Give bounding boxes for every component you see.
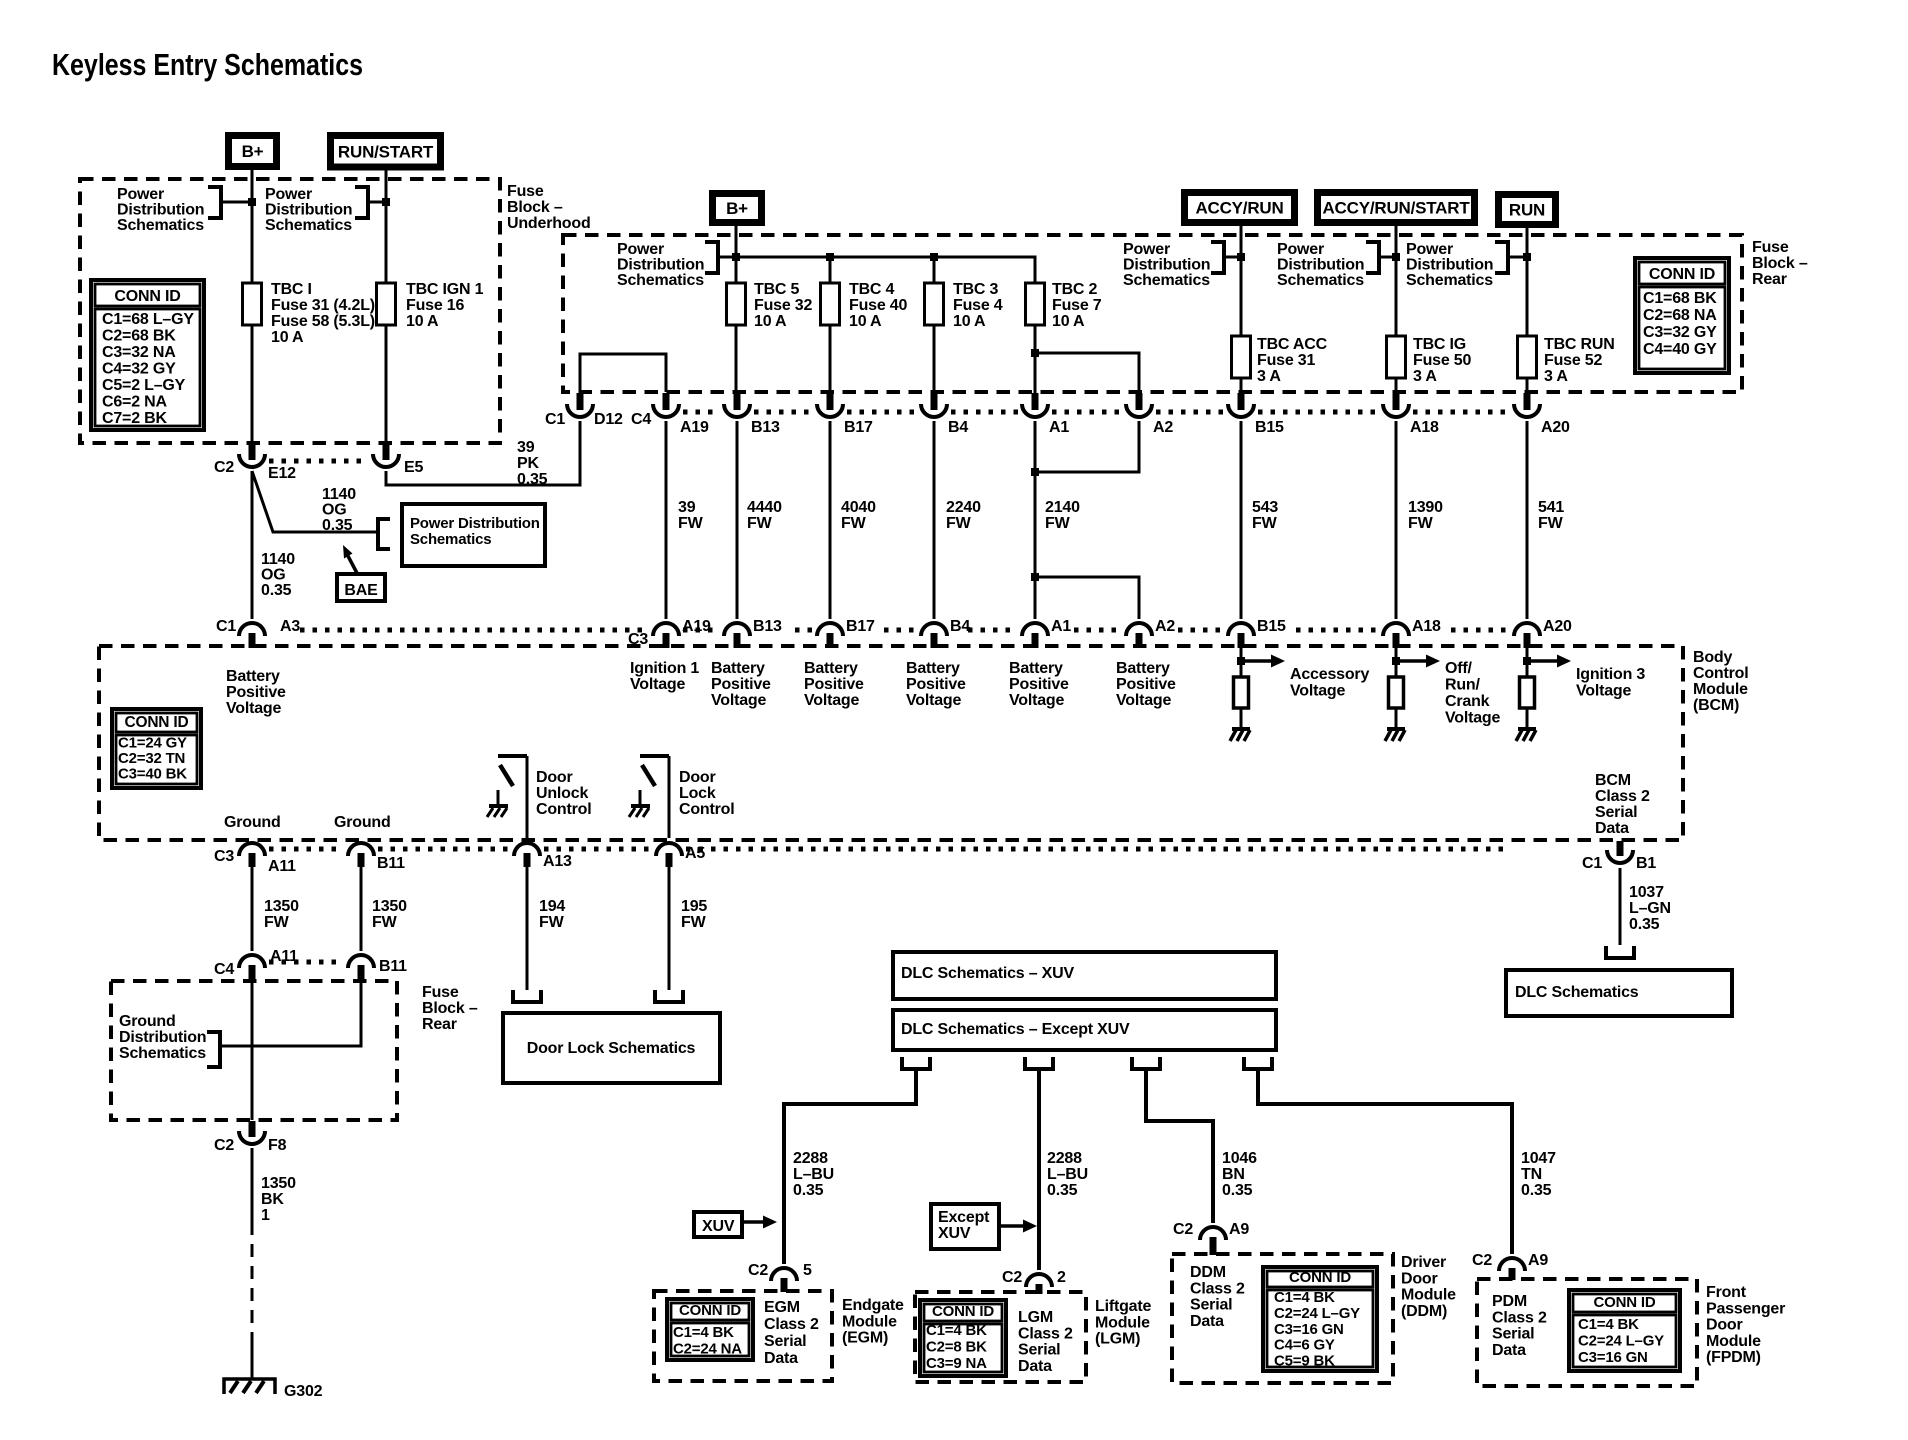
fuse TBC 3 xyxy=(925,283,944,325)
svg-text:C3: C3 xyxy=(214,848,234,865)
svg-text:Control: Control xyxy=(679,801,734,818)
svg-text:Door: Door xyxy=(1401,1270,1438,1287)
wire switch to connector (Door Unlock Control) xyxy=(526,756,529,838)
CONN ID table LGM xyxy=(920,1300,1006,1376)
wire 1047 TN 0.35 to PDM xyxy=(1258,1069,1512,1254)
wire TBC 5 to B13 connector xyxy=(735,325,738,393)
svg-text:A2: A2 xyxy=(1153,419,1173,436)
svg-text:Schematics: Schematics xyxy=(265,217,352,234)
dotted in-line connector row E12-E5 xyxy=(269,459,369,464)
svg-text:C3: C3 xyxy=(628,631,648,648)
svg-text:B4: B4 xyxy=(950,618,970,635)
svg-text:B17: B17 xyxy=(844,419,873,436)
connector C2/A9 (PDM) xyxy=(1499,1258,1525,1271)
CONN ID table EGM xyxy=(667,1299,753,1360)
svg-text:B13: B13 xyxy=(753,618,782,635)
svg-text:0.35: 0.35 xyxy=(1222,1182,1253,1199)
svg-text:1350: 1350 xyxy=(261,1175,296,1192)
power box RUN/START xyxy=(327,132,444,171)
svg-text:B+: B+ xyxy=(242,142,264,161)
svg-text:C3=9 NA: C3=9 NA xyxy=(926,1355,987,1372)
svg-text:0.35: 0.35 xyxy=(1521,1182,1552,1199)
svg-text:A18: A18 xyxy=(1410,419,1439,436)
svg-text:E5: E5 xyxy=(404,459,423,476)
svg-text:Block –: Block – xyxy=(507,199,563,216)
junction TBC2 output split xyxy=(1031,349,1039,357)
svg-text:4040: 4040 xyxy=(841,499,876,516)
svg-text:Except: Except xyxy=(938,1209,990,1226)
svg-text:C2: C2 xyxy=(214,1137,234,1154)
svg-text:Positive: Positive xyxy=(226,684,286,701)
wire 2240 FW (B4) xyxy=(933,421,936,619)
svg-text:Fuse 16: Fuse 16 xyxy=(406,297,464,314)
svg-text:PK: PK xyxy=(517,455,539,472)
svg-text:Voltage: Voltage xyxy=(1290,683,1346,700)
svg-text:2140: 2140 xyxy=(1045,499,1080,516)
svg-text:Run/: Run/ xyxy=(1445,677,1481,694)
svg-text:10 A: 10 A xyxy=(271,329,304,346)
svg-text:5: 5 xyxy=(803,1262,812,1279)
wire A18 internal with junction xyxy=(1395,647,1398,677)
junction on RUN/START wire xyxy=(382,198,390,206)
wire 194 FW (A13 to door lock schematics) xyxy=(526,866,529,990)
connector A19 (fuse block rear output) xyxy=(663,393,670,410)
connector A18 (into BCM) xyxy=(1383,623,1409,636)
svg-text:C5=9 BK: C5=9 BK xyxy=(1274,1353,1335,1370)
svg-text:L–BU: L–BU xyxy=(793,1166,834,1183)
svg-text:Fuse 50: Fuse 50 xyxy=(1413,352,1471,369)
svg-text:Fuse 31: Fuse 31 xyxy=(1257,352,1315,369)
svg-text:543: 543 xyxy=(1252,499,1278,516)
svg-text:Liftgate: Liftgate xyxy=(1095,1298,1151,1315)
switch Door Lock Control xyxy=(640,754,669,758)
svg-text:Power: Power xyxy=(1406,241,1453,258)
svg-text:0.35: 0.35 xyxy=(517,471,548,488)
svg-text:Ignition 1: Ignition 1 xyxy=(630,660,699,677)
svg-text:FW: FW xyxy=(372,914,398,931)
connector B11 (BCM bottom) xyxy=(348,843,374,856)
connector A1 (into BCM) xyxy=(1022,623,1048,636)
svg-text:Battery: Battery xyxy=(711,660,765,677)
svg-text:C1=4 BK: C1=4 BK xyxy=(1578,1316,1639,1333)
connector C2/2 (LGM) xyxy=(1026,1274,1052,1287)
svg-text:Crank: Crank xyxy=(1445,693,1490,710)
svg-text:BAE: BAE xyxy=(344,582,378,599)
svg-text:Schematics: Schematics xyxy=(617,272,704,289)
box DLC Schematics xyxy=(1506,970,1732,1016)
power box RUN xyxy=(1495,191,1559,228)
svg-text:A1: A1 xyxy=(1051,618,1071,635)
svg-text:Positive: Positive xyxy=(711,676,771,693)
svg-text:Body: Body xyxy=(1693,649,1733,666)
svg-text:RUN: RUN xyxy=(1509,201,1545,220)
svg-text:Positive: Positive xyxy=(804,676,864,693)
svg-text:C2=68 BK: C2=68 BK xyxy=(102,328,176,345)
svg-text:Underhood: Underhood xyxy=(507,215,591,232)
svg-text:Distribution: Distribution xyxy=(119,1029,206,1046)
svg-text:A13: A13 xyxy=(543,853,572,870)
svg-text:Data: Data xyxy=(1595,820,1629,837)
svg-text:C6=2 NA: C6=2 NA xyxy=(102,394,167,411)
svg-text:C2: C2 xyxy=(1472,1252,1492,1269)
svg-text:Distribution: Distribution xyxy=(265,202,352,219)
connector C1/B1 (BCM serial data) xyxy=(1617,841,1624,856)
power box ACCY/RUN xyxy=(1181,189,1298,226)
svg-text:A9: A9 xyxy=(1229,1221,1249,1238)
callout box Except XUV with arrow xyxy=(931,1204,999,1249)
connector A20 (into BCM) xyxy=(1514,623,1540,636)
wire branch to Power Distribution Schematics box (1140 OG) xyxy=(252,471,378,532)
dotted in-line connector row (BCM top) xyxy=(300,628,645,633)
dotted in-line connector row (fuse block rear) xyxy=(683,410,720,415)
svg-text:EGM: EGM xyxy=(764,1299,800,1316)
svg-text:Positive: Positive xyxy=(1009,676,1069,693)
svg-text:PDM: PDM xyxy=(1492,1293,1527,1310)
svg-text:Rear: Rear xyxy=(1752,271,1787,288)
svg-text:Module: Module xyxy=(1706,1333,1761,1350)
svg-text:Data: Data xyxy=(1190,1313,1224,1330)
svg-text:Distribution: Distribution xyxy=(617,257,704,274)
svg-text:Power: Power xyxy=(1123,241,1170,258)
wire TBC 4 to B17 connector xyxy=(829,325,832,393)
svg-text:Schematics: Schematics xyxy=(119,1045,206,1062)
svg-text:C3=40 BK: C3=40 BK xyxy=(118,766,187,783)
svg-text:Positive: Positive xyxy=(906,676,966,693)
svg-text:1047: 1047 xyxy=(1521,1150,1556,1167)
wire 4440 FW (B13) xyxy=(736,421,739,619)
svg-text:C3=32 GY: C3=32 GY xyxy=(1643,324,1717,341)
svg-text:A20: A20 xyxy=(1541,419,1570,436)
svg-text:Unlock: Unlock xyxy=(536,785,588,802)
box DLC Schematics - Except XUV xyxy=(893,1010,1276,1050)
svg-text:C1: C1 xyxy=(1582,855,1602,872)
svg-text:CONN ID: CONN ID xyxy=(1289,1269,1351,1286)
svg-text:Module: Module xyxy=(842,1313,897,1330)
junction bus/TBC4 xyxy=(826,253,834,261)
svg-text:A20: A20 xyxy=(1543,618,1572,635)
svg-text:FW: FW xyxy=(1045,515,1071,532)
wire B15 internal with junction xyxy=(1240,647,1243,677)
svg-text:C3=32 NA: C3=32 NA xyxy=(102,344,176,361)
svg-text:541: 541 xyxy=(1538,499,1564,516)
svg-text:Power: Power xyxy=(617,241,664,258)
svg-text:Class 2: Class 2 xyxy=(764,1316,819,1333)
ground symbol (B15) xyxy=(1232,727,1250,731)
connector B15 (fuse block rear output) xyxy=(1238,393,1245,410)
wire RUN/START to TBC IGN 1 fuse xyxy=(385,171,388,284)
svg-text:ACCY/RUN/START: ACCY/RUN/START xyxy=(1322,199,1470,218)
svg-text:Endgate: Endgate xyxy=(842,1297,904,1314)
svg-text:C2=32 TN: C2=32 TN xyxy=(118,750,185,767)
svg-text:Class 2: Class 2 xyxy=(1018,1325,1073,1342)
svg-text:OG: OG xyxy=(261,567,286,584)
wire load to ground (A18) xyxy=(1395,708,1398,729)
svg-text:Driver: Driver xyxy=(1401,1254,1446,1271)
fuse TBC I xyxy=(243,283,262,325)
svg-text:2288: 2288 xyxy=(793,1150,828,1167)
svg-text:Module: Module xyxy=(1693,681,1748,698)
svg-text:A3: A3 xyxy=(280,618,300,635)
svg-text:B11: B11 xyxy=(379,958,407,975)
connector A5 (BCM bottom) xyxy=(656,843,682,856)
svg-text:10 A: 10 A xyxy=(406,313,439,330)
fuse block rear dashed box xyxy=(563,235,1742,392)
fuse TBC 4 xyxy=(821,283,840,325)
svg-text:Class 2: Class 2 xyxy=(1190,1280,1245,1297)
load resistor below A20 xyxy=(1520,677,1535,708)
svg-text:C2=68 NA: C2=68 NA xyxy=(1643,307,1717,324)
svg-text:(FPDM): (FPDM) xyxy=(1706,1349,1761,1366)
svg-text:LGM: LGM xyxy=(1018,1309,1053,1326)
svg-text:Off/: Off/ xyxy=(1445,660,1473,677)
svg-text:C2: C2 xyxy=(1173,1221,1193,1238)
junction on B+ wire xyxy=(248,198,256,206)
svg-text:B11: B11 xyxy=(377,855,405,872)
svg-text:1: 1 xyxy=(261,1207,270,1224)
svg-text:Fuse 7: Fuse 7 xyxy=(1052,297,1102,314)
wire 1037 L-GN 0.35 xyxy=(1619,868,1622,945)
svg-text:CONN ID: CONN ID xyxy=(1594,1294,1656,1311)
wire 39 FW (A19 to C3/A19) xyxy=(665,421,668,619)
svg-text:Door: Door xyxy=(536,769,573,786)
wire C2 to C1/A3 (1140 OG) xyxy=(251,471,254,619)
svg-text:Fuse: Fuse xyxy=(422,984,459,1001)
svg-text:Distribution: Distribution xyxy=(1277,257,1364,274)
svg-text:C1=4 BK: C1=4 BK xyxy=(673,1324,734,1341)
svg-text:2: 2 xyxy=(1057,1269,1066,1286)
junction ACCY/RUN/START wire xyxy=(1392,253,1400,261)
pin cups below DLC Except XUV box xyxy=(902,1057,930,1069)
svg-text:194: 194 xyxy=(539,898,565,915)
svg-text:Schematics: Schematics xyxy=(1277,272,1364,289)
svg-text:Schematics: Schematics xyxy=(410,531,491,548)
svg-text:0.35: 0.35 xyxy=(793,1182,824,1199)
svg-text:FW: FW xyxy=(678,515,704,532)
wire ACCY/RUN to TBC ACC fuse xyxy=(1240,226,1243,336)
svg-text:2288: 2288 xyxy=(1047,1150,1082,1167)
wire TBC RUN to A20 connector xyxy=(1526,378,1529,393)
svg-text:39: 39 xyxy=(517,439,535,456)
svg-text:Block –: Block – xyxy=(1752,255,1808,272)
svg-text:C1=24 GY: C1=24 GY xyxy=(118,735,187,752)
svg-text:0.35: 0.35 xyxy=(322,517,353,534)
ground symbol (A20) xyxy=(1518,727,1536,731)
fuse TBC IGN 1 xyxy=(377,283,396,325)
svg-text:Fuse 31 (4.2L): Fuse 31 (4.2L) xyxy=(271,297,375,314)
wire TBC 2 to A1/A2 split xyxy=(1034,325,1037,353)
svg-text:Voltage: Voltage xyxy=(804,692,860,709)
junction bus/TBC3 xyxy=(930,253,938,261)
svg-text:C1=4 BK: C1=4 BK xyxy=(1274,1289,1335,1306)
dotted in-line connector row C4-B11 xyxy=(269,960,344,965)
connector C1/A3 (battery positive into BCM) xyxy=(239,623,265,636)
connector A2 (into BCM) xyxy=(1126,623,1152,636)
svg-text:TBC 5: TBC 5 xyxy=(754,281,800,298)
connector A20 (fuse block rear output) xyxy=(1524,393,1531,410)
svg-text:C4: C4 xyxy=(214,961,234,978)
svg-text:(EGM): (EGM) xyxy=(842,1330,888,1347)
Front Passenger Door Module dashed box xyxy=(1477,1279,1697,1386)
connector B13 (fuse block rear output) xyxy=(734,393,741,410)
svg-text:BCM: BCM xyxy=(1595,772,1631,789)
svg-text:B15: B15 xyxy=(1257,618,1286,635)
svg-text:Fuse: Fuse xyxy=(1752,239,1789,256)
fuse TBC IG xyxy=(1387,336,1406,378)
wire split to A1 connector xyxy=(1034,353,1037,393)
svg-text:FW: FW xyxy=(1538,515,1564,532)
svg-text:Module: Module xyxy=(1401,1287,1456,1304)
svg-text:Door: Door xyxy=(1706,1317,1743,1334)
junction ACCY/RUN wire xyxy=(1237,253,1245,261)
connector B4 (into BCM) xyxy=(921,623,947,636)
svg-text:2240: 2240 xyxy=(946,499,981,516)
svg-text:1140: 1140 xyxy=(322,486,356,503)
connector B17 (fuse block rear output) xyxy=(827,393,834,410)
svg-text:FW: FW xyxy=(681,914,707,931)
svg-text:A1: A1 xyxy=(1049,419,1069,436)
svg-text:Door Lock Schematics: Door Lock Schematics xyxy=(527,1040,696,1057)
svg-text:C2=24 L–GY: C2=24 L–GY xyxy=(1578,1333,1664,1350)
wire TBC I to C2 connector xyxy=(251,325,254,444)
svg-text:Ground: Ground xyxy=(119,1013,176,1030)
svg-text:B17: B17 xyxy=(846,618,875,635)
svg-text:TBC ACC: TBC ACC xyxy=(1257,336,1328,353)
svg-text:Serial: Serial xyxy=(1492,1326,1534,1343)
wire 1350 FW (C3/A11 to C4/A11) xyxy=(251,866,254,951)
pin cup A13 to door lock schematics box xyxy=(513,990,541,1002)
connector E5 (underhood output) xyxy=(383,444,390,460)
svg-text:1350: 1350 xyxy=(372,898,407,915)
svg-text:Distribution: Distribution xyxy=(117,202,204,219)
svg-text:FW: FW xyxy=(539,914,565,931)
CONN ID table PDM xyxy=(1569,1290,1680,1371)
svg-text:C4=6 GY: C4=6 GY xyxy=(1274,1337,1335,1354)
wire C4/A11 through fuse block to C2/F8 xyxy=(251,981,254,1120)
svg-text:Power: Power xyxy=(265,186,312,203)
svg-text:3 A: 3 A xyxy=(1413,368,1437,385)
svg-text:C1=4 BK: C1=4 BK xyxy=(926,1322,987,1339)
svg-text:Accessory: Accessory xyxy=(1290,666,1369,683)
svg-text:FW: FW xyxy=(264,914,290,931)
svg-text:ACCY/RUN: ACCY/RUN xyxy=(1195,199,1283,218)
svg-text:FW: FW xyxy=(841,515,867,532)
wire TBC IGN 1 to E5 connector xyxy=(385,325,388,444)
reference box Power Distribution Schematics xyxy=(378,519,390,549)
wire TBC 3 to B4 connector xyxy=(933,325,936,393)
switch Door Unlock Control xyxy=(498,754,527,758)
box DLC Schematics - XUV xyxy=(893,952,1276,999)
svg-text:TBC RUN: TBC RUN xyxy=(1544,336,1615,353)
svg-text:Positive: Positive xyxy=(1116,676,1176,693)
wire RUN to TBC RUN fuse xyxy=(1526,228,1529,336)
svg-text:195: 195 xyxy=(681,898,707,915)
CONN ID table fuse block rear xyxy=(1635,258,1729,373)
svg-text:FW: FW xyxy=(1252,515,1278,532)
connector B11 (into fuse block rear) xyxy=(348,955,374,968)
power box ACCY/RUN/START xyxy=(1314,189,1478,226)
bus wire from bracket to TBC2 xyxy=(718,257,1035,283)
wire 2288 L-BU 0.35 to LGM xyxy=(1037,1069,1041,1270)
svg-text:TBC 4: TBC 4 xyxy=(849,281,895,298)
ground G302 symbol xyxy=(224,1379,275,1394)
svg-text:C2: C2 xyxy=(214,459,234,476)
wire bus to TBC 4 xyxy=(829,257,832,283)
svg-text:C4: C4 xyxy=(631,411,651,428)
svg-text:Distribution: Distribution xyxy=(1406,257,1493,274)
svg-text:G302: G302 xyxy=(284,1383,323,1400)
svg-text:Voltage: Voltage xyxy=(1576,683,1632,700)
svg-text:C1=68 BK: C1=68 BK xyxy=(1643,290,1717,307)
wire 1390 FW (A18) xyxy=(1395,421,1398,619)
svg-text:Serial: Serial xyxy=(1595,804,1637,821)
svg-text:Ignition 3: Ignition 3 xyxy=(1576,666,1645,683)
svg-text:C1: C1 xyxy=(216,618,236,635)
svg-text:Module: Module xyxy=(1095,1314,1150,1331)
svg-text:Control: Control xyxy=(1693,665,1748,682)
svg-text:A11: A11 xyxy=(268,858,296,875)
callout box XUV with arrow xyxy=(694,1212,742,1237)
svg-text:RUN/START: RUN/START xyxy=(338,142,434,161)
svg-text:C4=40 GY: C4=40 GY xyxy=(1643,341,1717,358)
wire 1350 BK 1 to G302 xyxy=(251,1148,254,1222)
svg-text:CONN ID: CONN ID xyxy=(1649,266,1715,283)
svg-text:A19: A19 xyxy=(680,419,709,436)
svg-text:Fuse 58 (5.3L): Fuse 58 (5.3L) xyxy=(271,313,375,330)
svg-text:Distribution: Distribution xyxy=(1123,257,1210,274)
connector B4 (fuse block rear output) xyxy=(931,393,938,410)
svg-text:Fuse 40: Fuse 40 xyxy=(849,297,907,314)
svg-text:D12: D12 xyxy=(594,411,623,428)
svg-text:(LGM): (LGM) xyxy=(1095,1331,1140,1348)
wire 39 PK 0.35 from E5 to C1 D12 xyxy=(386,421,580,485)
svg-text:OG: OG xyxy=(322,502,347,519)
wire internal link D12 to A19 inside fuse block rear xyxy=(580,354,666,392)
svg-text:Front: Front xyxy=(1706,1284,1747,1301)
connector B17 (into BCM) xyxy=(817,623,843,636)
wire load to ground (B15) xyxy=(1240,708,1243,729)
svg-text:Fuse: Fuse xyxy=(507,183,544,200)
wire ACCY/RUN/START to TBC IG fuse xyxy=(1395,226,1398,336)
svg-text:0.35: 0.35 xyxy=(1629,916,1660,933)
svg-text:TBC 3: TBC 3 xyxy=(953,281,999,298)
svg-text:B13: B13 xyxy=(751,419,780,436)
svg-text:Data: Data xyxy=(764,1350,798,1367)
svg-text:TBC 2: TBC 2 xyxy=(1052,281,1098,298)
svg-text:C4=32 GY: C4=32 GY xyxy=(102,361,176,378)
wire 4040 FW (B17) xyxy=(829,421,832,619)
svg-text:C2: C2 xyxy=(748,1262,768,1279)
wire 543 FW (B15) xyxy=(1240,421,1243,619)
wire TBC IG to A18 connector xyxy=(1395,378,1398,393)
fuse block rear (bottom) dashed box xyxy=(111,981,397,1120)
svg-text:1390: 1390 xyxy=(1408,499,1443,516)
junction RUN wire xyxy=(1523,253,1531,261)
svg-text:Fuse 52: Fuse 52 xyxy=(1544,352,1602,369)
svg-text:C1: C1 xyxy=(545,411,565,428)
svg-text:Lock: Lock xyxy=(679,785,716,802)
load resistor below B15 xyxy=(1234,677,1249,708)
fuse TBC 5 xyxy=(727,283,746,325)
Endgate Module dashed box xyxy=(654,1291,832,1381)
svg-text:C2: C2 xyxy=(1002,1269,1022,1286)
svg-text:(BCM): (BCM) xyxy=(1693,697,1739,714)
svg-text:0.35: 0.35 xyxy=(261,582,292,599)
svg-text:Door: Door xyxy=(679,769,716,786)
svg-text:CONN ID: CONN ID xyxy=(932,1303,994,1320)
box Door Lock Schematics xyxy=(503,1013,720,1083)
wire 2288 L-BU 0.35 to EGM xyxy=(784,1069,916,1264)
svg-text:DLC Schematics – Except XUV: DLC Schematics – Except XUV xyxy=(901,1021,1130,1038)
